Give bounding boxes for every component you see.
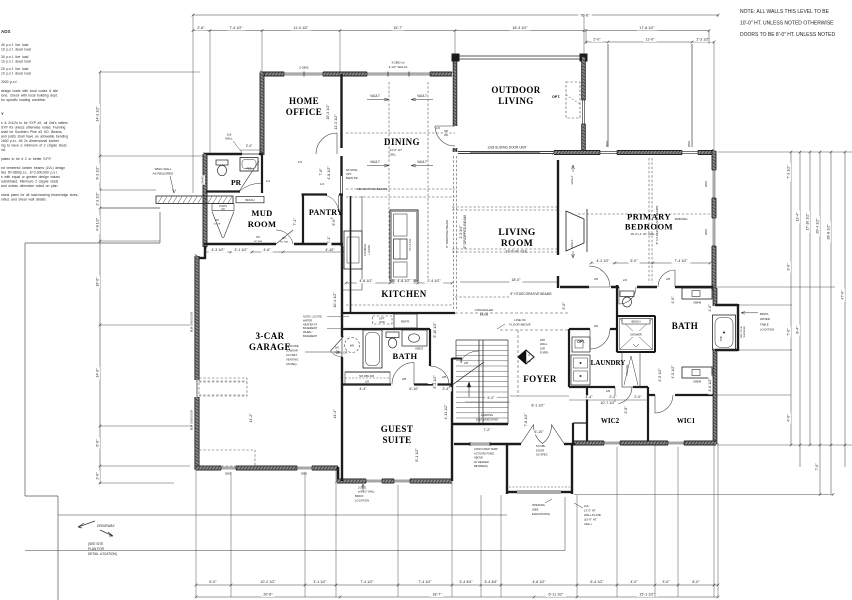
wall: left exterior (PR/mud room)	[203, 154, 207, 247]
wall: kitchen left	[350, 196, 352, 313]
svg-text:2'-3 1/2": 2'-3 1/2"	[96, 192, 100, 206]
svg-text:10'-0" HT. CEIL.: 10'-0" HT. CEIL.	[506, 250, 529, 254]
svg-text:18'-3 1/2": 18'-3 1/2"	[512, 26, 528, 30]
svg-text:40 p.s.f. live load: 40 p.s.f. live load	[1, 43, 28, 47]
wall: pantry left	[302, 195, 304, 246]
svg-text:(SEE SITE: (SEE SITE	[88, 542, 103, 546]
svg-text:WALL: WALL	[225, 137, 233, 141]
wall: guest closet top	[345, 371, 390, 373]
svg-text:8'-0": 8'-0"	[692, 580, 700, 584]
svg-text:2862: 2862	[225, 472, 232, 476]
svg-text:VENTING: VENTING	[286, 358, 298, 362]
bottom dimension rows	[196, 584, 718, 586]
svg-text:2862: 2862	[704, 180, 708, 187]
svg-text:12x8 SLIDING DOOR UNIT: 12x8 SLIDING DOOR UNIT	[487, 146, 526, 150]
svg-text:18'-7": 18'-7"	[432, 593, 442, 597]
svg-text:BASEMENT: BASEMENT	[303, 326, 318, 330]
stairs treads	[456, 344, 508, 346]
svg-text:DINING: DINING	[384, 137, 420, 147]
laundry cabinet	[571, 355, 590, 385]
svg-text:3'-0": 3'-0"	[562, 302, 566, 310]
svg-text:8'-1 1/2": 8'-1 1/2"	[531, 404, 545, 408]
svg-text:7'-6": 7'-6"	[319, 168, 323, 176]
svg-text:PRIMARY: PRIMARY	[627, 212, 671, 222]
wall: garage bottom exterior	[196, 466, 338, 470]
svg-text:ADS: ADS	[1, 29, 10, 34]
svg-text:4'-4": 4'-4"	[585, 395, 593, 399]
svg-text:BATH: BATH	[672, 321, 698, 331]
garage dashed storage	[199, 378, 247, 396]
svg-text:2X8: 2X8	[540, 338, 545, 342]
svg-text:15'-1 1/2": 15'-1 1/2"	[639, 593, 655, 597]
wall: sliding door unit (living room top)	[458, 150, 554, 152]
svg-text:2862: 2862	[605, 140, 609, 147]
svg-text:3/0: 3/0	[594, 324, 599, 328]
svg-text:16'-0"+1' HT. CEIL.: 16'-0"+1' HT. CEIL.	[630, 232, 655, 236]
svg-text:VENT PUSH: VENT PUSH	[741, 325, 743, 338]
mud room dim row	[205, 251, 300, 253]
svg-text:2/4: 2/4	[623, 278, 627, 282]
laundry dims	[583, 395, 594, 399]
svg-text:ties fb=2800p.s.i., E=2,000,0: ties fb=2800p.s.i., E=2,000,000 p.s.i.	[1, 171, 58, 175]
svg-text:5/0 DBL DR.: 5/0 DBL DR.	[359, 374, 375, 378]
svg-text:for specific loading condition: for specific loading condition.	[1, 98, 46, 102]
wall: primary bedroom bottom	[560, 286, 713, 288]
left notes text block (design loads)	[1, 29, 78, 202]
svg-text:14'-2": 14'-2"	[249, 413, 253, 423]
left dimension connector lines	[100, 71, 200, 73]
wall: shower bottom	[617, 351, 655, 353]
svg-text:OPT.: OPT.	[552, 95, 560, 99]
svg-text:2/6: 2/6	[606, 389, 611, 393]
svg-text:18'-0": 18'-0"	[511, 278, 521, 282]
wall: laundry top	[569, 328, 617, 330]
svg-text:4'-2 1/2": 4'-2 1/2"	[596, 259, 610, 263]
door mud room to garage	[276, 230, 293, 244]
svg-text:1/6: 1/6	[436, 126, 440, 130]
svg-text:6'-10": 6'-10"	[409, 387, 419, 391]
svg-text:24X60 FIXED TEMP: 24X60 FIXED TEMP	[474, 447, 498, 451]
wall: home office / dining top exterior	[262, 72, 452, 76]
svg-text:s with equal or greater design: s with equal or greater design values	[1, 175, 60, 179]
svg-text:DOORS TO BE 8'-0" HT. UNLESS N: DOORS TO BE 8'-0" HT. UNLESS NOTED	[740, 32, 835, 38]
svg-text:4'-0": 4'-0"	[671, 296, 675, 304]
svg-text:3'-0": 3'-0"	[787, 263, 791, 271]
svg-text:5/0: 5/0	[282, 237, 286, 240]
mud room bench	[236, 197, 264, 203]
door understairs closet	[460, 359, 462, 364]
svg-text:11'-3 1/2": 11'-3 1/2"	[334, 114, 338, 130]
folding closet	[622, 352, 640, 387]
svg-text:AS REQUIRED: AS REQUIRED	[153, 172, 175, 176]
wall: outdoor living top (screen)	[459, 55, 580, 57]
svg-text:VSB33: VSB33	[415, 347, 424, 351]
wall: guest suite top	[342, 383, 452, 385]
svg-text:6'-0": 6'-0"	[96, 439, 100, 447]
svg-text:DOOR: DOOR	[536, 448, 544, 452]
svg-text:w/3-1/2" WALL: w/3-1/2" WALL	[358, 490, 376, 494]
svg-text:VAULT: VAULT	[417, 94, 427, 98]
svg-text:8" HT.DECORATIVE BEAMS: 8" HT.DECORATIVE BEAMS	[510, 292, 551, 296]
fireplace	[566, 211, 584, 251]
svg-text:3-1/2" WALLS: 3-1/2" WALLS	[389, 65, 408, 69]
wall: outdoor living left exterior	[453, 57, 457, 152]
svg-text:4'-3 1/2": 4'-3 1/2"	[211, 248, 225, 252]
stairs outline	[456, 339, 508, 341]
kitchen cooktop counter	[344, 231, 362, 269]
svg-text:2x6: 2x6	[584, 504, 589, 508]
wall: home office left exterior	[260, 72, 264, 155]
wall: laundry left / foyer right	[568, 329, 570, 387]
porch walls	[506, 444, 508, 494]
wall: WIC bottom exterior	[573, 441, 716, 445]
svg-text:17'-10 1/2": 17'-10 1/2"	[806, 213, 810, 231]
svg-text:LIVING: LIVING	[498, 96, 533, 106]
svg-text:2862: 2862	[704, 228, 708, 235]
svg-text:OUTDOOR: OUTDOOR	[491, 85, 540, 95]
svg-text:FLOOR ABOVE: FLOOR ABOVE	[509, 323, 530, 327]
svg-text:4'-6 1/2": 4'-6 1/2"	[708, 378, 712, 392]
wall: home office right	[340, 74, 342, 148]
wall: home office bottom / hall	[315, 152, 337, 156]
svg-text:DOOR: DOOR	[214, 223, 221, 225]
svg-text:5'-4 1/2": 5'-4 1/2"	[433, 375, 437, 389]
svg-text:2'-4 1/2": 2'-4 1/2"	[427, 279, 441, 283]
svg-text:BLW GHD DOOR: BLW GHD DOOR	[190, 312, 194, 333]
svg-text:3'-4 3/4": 3'-4 3/4"	[459, 580, 473, 584]
svg-text:W/D: W/D	[379, 320, 384, 324]
guest closet double door	[345, 372, 390, 385]
wall: powder room top	[204, 153, 263, 155]
svg-text:2'-0": 2'-0"	[96, 472, 100, 480]
wall: kitchen bottom	[342, 312, 455, 314]
svg-text:7'-4 1/2": 7'-4 1/2"	[418, 580, 432, 584]
svg-text:FOLDING: FOLDING	[626, 365, 629, 376]
wall: guest bath right	[429, 329, 431, 385]
wall: foyer front entry	[454, 443, 470, 445]
primary tub	[713, 315, 736, 350]
svg-text:TUB: TUB	[719, 336, 723, 341]
svg-text:+ HOOD: + HOOD	[367, 245, 371, 255]
svg-text:LOCATION: LOCATION	[355, 499, 369, 503]
svg-text:4'-6 1/2": 4'-6 1/2"	[532, 580, 546, 584]
wall: understairs stub	[452, 358, 462, 360]
svg-text:CONCEALED: CONCEALED	[475, 308, 495, 312]
svg-text:7'-1": 7'-1"	[327, 236, 331, 244]
primary bedroom dashed beams	[648, 158, 650, 283]
line of floor above vertical dashed	[517, 330, 519, 396]
svg-text:REFR.: REFR.	[401, 320, 410, 324]
wall: garage step	[204, 246, 206, 259]
bottom dimension extension lines	[195, 468, 197, 597]
svg-text:2/8: 2/8	[442, 375, 447, 379]
svg-text:1/4: 1/4	[320, 182, 324, 186]
bedroom interior dim row	[591, 262, 710, 264]
wall: bath bottom / WIC1 top	[648, 394, 717, 396]
svg-text:3'-4": 3'-4"	[442, 387, 450, 391]
svg-text:4'-10": 4'-10"	[325, 248, 335, 252]
wall: mud room bottom	[204, 243, 343, 245]
powder room toilet	[216, 160, 228, 165]
svg-text:11'-0": 11'-0"	[646, 38, 656, 42]
wall: tub bumpout	[715, 304, 738, 306]
right dimension ticks and connectors	[718, 151, 852, 153]
svg-text:INSUL DR.: INSUL DR.	[335, 351, 349, 355]
svg-text:PLAN FOR: PLAN FOR	[88, 547, 105, 551]
svg-text:ions. Check with local buildin: ions. Check with local building dept.	[1, 94, 58, 98]
door primary bath hall	[658, 270, 675, 287]
svg-text:OPT.: OPT.	[346, 172, 352, 176]
svg-text:4'-8 1/2": 4'-8 1/2"	[397, 279, 411, 283]
top dimension extension lines	[192, 15, 194, 193]
door hall to guest	[428, 366, 432, 384]
svg-text:NOTE: ALL WALLS THIS LEVEL: NOTE: ALL WALLS THIS LEVEL TO BE	[740, 9, 830, 15]
svg-text:30 p.s.f. live load: 30 p.s.f. live load	[1, 55, 28, 59]
svg-text:4'-5 1/2": 4'-5 1/2"	[671, 365, 675, 379]
svg-text:6'-11 1/2": 6'-11 1/2"	[549, 593, 565, 597]
svg-text:plates to be # 2 or better S.P: plates to be # 2 or better S.P.F.	[1, 157, 52, 161]
svg-text:2/8: 2/8	[594, 277, 598, 281]
concealed beam dashed at foyer top	[455, 312, 569, 314]
svg-text:11'-0 1/2": 11'-0 1/2"	[294, 26, 310, 30]
svg-text:2/8: 2/8	[666, 277, 670, 281]
wall: outdoor living right exterior	[582, 57, 586, 152]
svg-text:KITCHEN: KITCHEN	[381, 289, 426, 299]
door guest bath	[392, 363, 414, 385]
door primary bedroom (double)	[589, 266, 610, 287]
mud room coats closet	[212, 204, 234, 211]
svg-text:OFFICE: OFFICE	[286, 107, 322, 117]
svg-text:AS SPEC: AS SPEC	[536, 453, 548, 457]
svg-text:LANDING: LANDING	[481, 413, 493, 417]
svg-text:TEMPERED: TEMPERED	[744, 326, 746, 339]
svg-text:10'-2 1/2": 10'-2 1/2"	[260, 580, 276, 584]
svg-text:(SEE: (SEE	[532, 508, 539, 512]
svg-text:14'-3 1/2": 14'-3 1/2"	[96, 106, 100, 122]
svg-text:10'-3 1/2": 10'-3 1/2"	[326, 104, 330, 120]
foyer section marker diamond	[518, 350, 534, 364]
svg-text:9'-2": 9'-2"	[487, 396, 495, 400]
svg-text:(OR: (OR	[540, 346, 545, 350]
living room dashed beams	[452, 206, 557, 208]
door WIC1	[655, 395, 673, 413]
svg-text:OPENING: OPENING	[532, 503, 545, 507]
right dimension labels	[787, 163, 791, 182]
svg-text:2862: 2862	[301, 472, 308, 476]
svg-text:WH: WH	[350, 344, 354, 348]
guest suite dims	[357, 387, 368, 391]
svg-text:4'-8 1/2": 4'-8 1/2"	[359, 279, 373, 283]
stairs cut line	[448, 362, 484, 388]
svg-text:BENCH: BENCH	[245, 198, 254, 202]
svg-text:5/0 DBL: 5/0 DBL	[536, 444, 546, 448]
svg-text:ROOM: ROOM	[248, 219, 277, 229]
wall: laundry bottom	[569, 386, 648, 388]
svg-text:2862: 2862	[687, 140, 691, 147]
svg-text:SHOWER: SHOWER	[630, 333, 642, 337]
svg-text:14'-0": 14'-0"	[96, 368, 100, 378]
wall: shower right	[654, 316, 656, 352]
svg-text:Y: Y	[1, 111, 4, 116]
svg-text:VAULT: VAULT	[370, 94, 380, 98]
svg-text:4'-0": 4'-0"	[630, 580, 638, 584]
top-right note text	[740, 9, 835, 38]
svg-text:PR: PR	[231, 178, 242, 187]
door water closet	[619, 287, 636, 304]
svg-text:and unless otherwise noted on: and unless otherwise noted on plan.	[1, 184, 58, 188]
svg-text:10'-4 1/2": 10'-4 1/2"	[333, 292, 337, 308]
svg-text:10 p.s.f. dead load: 10 p.s.f. dead load	[1, 60, 31, 64]
guest bath toilet	[386, 332, 399, 338]
svg-text:4'-11 1/2": 4'-11 1/2"	[444, 404, 448, 420]
svg-text:2'-3 1/2": 2'-3 1/2"	[696, 38, 710, 42]
svg-text:LINE OF: LINE OF	[514, 318, 526, 322]
svg-text:VAULT: VAULT	[370, 160, 380, 164]
svg-text:WALL PLATE: WALL PLATE	[584, 513, 601, 517]
svg-text:NOTE: LOCATE: NOTE: LOCATE	[303, 315, 322, 319]
svg-text:BRICK: BRICK	[760, 312, 769, 316]
svg-text:and joists shall have an allow: and joists shall have an allowable bendi…	[1, 135, 68, 139]
svg-text:ELEVATIONS): ELEVATIONS)	[532, 512, 550, 516]
svg-text:nd.: nd.	[1, 148, 6, 152]
wall: primary bedroom right exterior	[712, 151, 716, 290]
wall: powder room bottom	[206, 190, 240, 192]
door powder room	[239, 161, 259, 192]
svg-text:WALL: WALL	[540, 342, 548, 346]
svg-text:BASEMENT: BASEMENT	[303, 334, 318, 338]
guest bath vanity	[402, 330, 427, 346]
svg-text:2'-0": 2'-0"	[593, 38, 601, 42]
svg-text:1/6: 1/6	[298, 160, 302, 164]
svg-text:LIVING: LIVING	[498, 228, 535, 238]
svg-text:ctural plans for all load-bear: ctural plans for all load-bearing beam/r…	[1, 193, 78, 197]
svg-text:7'-8 1/2": 7'-8 1/2"	[524, 413, 528, 427]
svg-text:OPT.: OPT.	[577, 340, 585, 344]
svg-text:BLW GHD DOOR: BLW GHD DOOR	[190, 410, 194, 431]
svg-text:2/8: 2/8	[464, 361, 468, 365]
svg-text:5/0: 5/0	[256, 235, 260, 239]
wall: foyer right below	[572, 423, 574, 444]
svg-text:36x42: 36x42	[201, 176, 205, 184]
svg-text:WATER: WATER	[760, 317, 770, 321]
svg-text:2'-8": 2'-8"	[624, 406, 628, 414]
svg-text:4'-0": 4'-0"	[708, 304, 712, 312]
svg-text:10'-7 1/2": 10'-7 1/2"	[600, 401, 616, 405]
svg-text:VSB48: VSB48	[693, 380, 702, 384]
svg-text:WIC1: WIC1	[677, 417, 696, 425]
svg-text:3'-1 1/2": 3'-1 1/2"	[313, 580, 327, 584]
door home office	[316, 133, 337, 154]
svg-text:ROOM: ROOM	[501, 239, 533, 249]
svg-text:I S L A N D: I S L A N D	[408, 239, 412, 252]
svg-text:7'-0": 7'-0"	[815, 463, 819, 471]
svg-text:28'-8 1/2": 28'-8 1/2"	[827, 224, 831, 240]
svg-text:2000 p.s.f.: 2000 p.s.f.	[1, 80, 17, 84]
svg-text:TABLE: TABLE	[760, 322, 769, 326]
svg-text:6'-10": 6'-10"	[534, 430, 544, 434]
svg-text:2/8: 2/8	[402, 377, 407, 381]
entry double doors	[521, 425, 534, 444]
svg-text:2'-4": 2'-4"	[246, 144, 252, 148]
svg-text:6'-4 1/2": 6'-4 1/2"	[590, 580, 604, 584]
powder room sink	[240, 158, 258, 172]
svg-text:10'-0" HT. UNLESS NOTED OTHERW: 10'-0" HT. UNLESS NOTED OTHERWISE	[740, 21, 834, 27]
svg-text:WING WALL: WING WALL	[154, 167, 171, 171]
svg-text:5'-0": 5'-0"	[332, 218, 336, 226]
svg-text:4'-8 1/2": 4'-8 1/2"	[96, 217, 100, 231]
svg-text:6'-0": 6'-0"	[209, 580, 217, 584]
svg-text:11'-4": 11'-4"	[333, 409, 337, 419]
svg-text:2/8: 2/8	[365, 380, 369, 384]
svg-text:SUITE: SUITE	[382, 435, 411, 445]
svg-text:orted, and shear wall details.: orted, and shear wall details.	[1, 198, 47, 202]
svg-text:PANTRY: PANTRY	[309, 208, 343, 217]
svg-text:8'-4": 8'-4"	[796, 326, 800, 334]
svg-text:HOME: HOME	[289, 96, 319, 106]
wall: WC/shower divider	[617, 315, 655, 317]
wall: living/bedroom top exterior	[554, 151, 714, 155]
svg-text:10 p.s.f. dead load: 10 p.s.f. dead load	[1, 48, 31, 52]
svg-text:17'-8 1/2": 17'-8 1/2"	[639, 26, 655, 30]
svg-text:20'-6": 20'-6"	[263, 593, 273, 597]
svg-text:2'-0": 2'-0"	[634, 395, 642, 399]
garage right wall dims	[333, 290, 337, 311]
living room beam dims	[460, 281, 557, 283]
left dimension line column	[99, 72, 101, 484]
svg-text:1/4: 1/4	[266, 179, 270, 183]
svg-text:4'-6": 4'-6"	[263, 248, 271, 252]
svg-text:8" DROPPED BEAM: 8" DROPPED BEAM	[445, 220, 449, 248]
svg-text:DR: DR	[444, 133, 448, 137]
svg-text:FURR): FURR)	[540, 351, 548, 355]
driveway arrows and label	[78, 521, 95, 528]
top dimension row (right)	[586, 41, 714, 43]
svg-text:5/0: 5/0	[335, 346, 339, 350]
svg-text:4'-4": 4'-4"	[359, 387, 367, 391]
svg-text:DETAIL LOCATION): DETAIL LOCATION)	[88, 552, 117, 556]
svg-text:2'-6": 2'-6"	[197, 26, 205, 30]
svg-text:2x10 w/DECKING: 2x10 w/DECKING	[476, 418, 498, 422]
svg-text:VAULT: VAULT	[570, 239, 574, 248]
door WIC2	[615, 387, 632, 404]
svg-text:VAULT: VAULT	[570, 175, 574, 184]
svg-text:VAULT: VAULT	[417, 160, 427, 164]
svg-text:16'-0": 16'-0"	[96, 277, 100, 287]
wall: guest suite bottom exterior	[337, 479, 452, 483]
svg-text:WHEN /: WHEN /	[303, 330, 313, 334]
top overall dimension line 76'-6"	[193, 14, 718, 16]
wall: powder room right	[261, 154, 263, 193]
svg-text:PED: PED	[246, 168, 251, 171]
svg-text:13'-0" HT.: 13'-0" HT.	[584, 509, 596, 513]
svg-text:1600 p.s.i. All 2x dimensional: 1600 p.s.i. All 2x dimensional lumber	[1, 139, 60, 143]
svg-text:LOCATION: LOCATION	[760, 328, 774, 332]
svg-text:20'-4 1/2": 20'-4 1/2"	[816, 218, 820, 234]
svg-text:GO WIN: GO WIN	[280, 241, 289, 243]
svg-text:8" DROPPED BEAM: 8" DROPPED BEAM	[463, 215, 467, 248]
kitchen counter lines	[361, 196, 363, 290]
primary shower	[617, 316, 655, 352]
primary vanity bottom	[682, 367, 712, 378]
wall: WIC divider	[647, 387, 649, 443]
svg-text:BEDROOM: BEDROOM	[625, 222, 673, 232]
garage dashed door swing lines	[199, 380, 247, 382]
wall: right exterior (bath/WIC)	[713, 288, 717, 306]
outdoor living opt fireplace dashed	[566, 82, 580, 118]
svg-text:5'-10 1/2": 5'-10 1/2"	[433, 322, 437, 338]
svg-text:3'-0": 3'-0"	[662, 580, 670, 584]
svg-text:7'-4 1/2": 7'-4 1/2"	[674, 259, 688, 263]
